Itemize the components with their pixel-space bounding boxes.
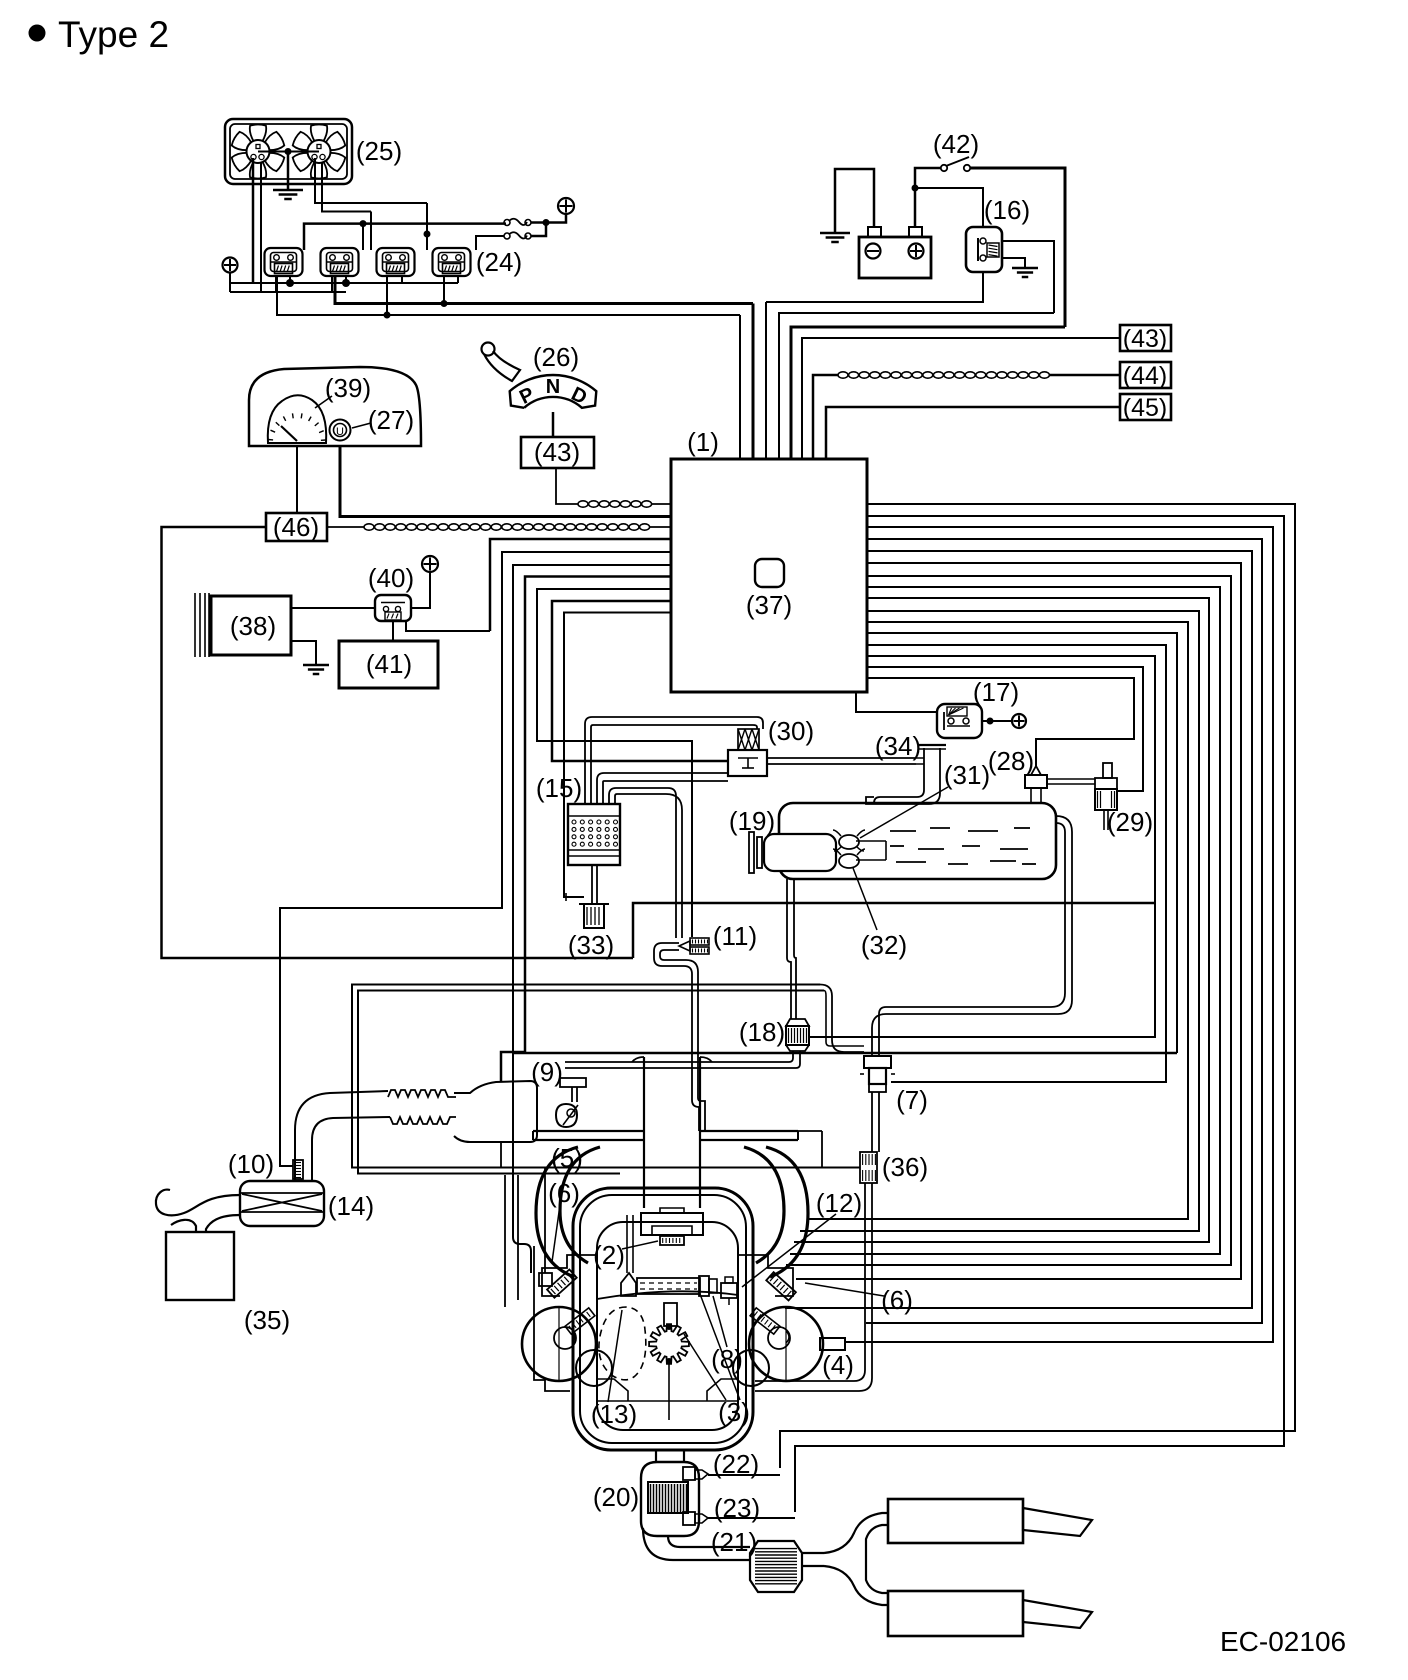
wire engine-right b xyxy=(800,611,1199,1231)
wire (33) stub xyxy=(564,896,584,898)
wire (36) left xyxy=(822,1131,860,1168)
wire engine-right c xyxy=(794,598,1209,1242)
wire 46 to ECU chain xyxy=(327,526,671,528)
injector bus 2 xyxy=(230,291,346,293)
central duct xyxy=(643,1057,645,1208)
svg-text:(30): (30) xyxy=(768,716,814,746)
pipe to cat 21 xyxy=(643,1528,750,1560)
wire fan right pin B xyxy=(322,162,371,212)
wire ECU-left y589 to (11) xyxy=(537,589,692,937)
band extension xyxy=(798,1130,822,1132)
Y inner wedge xyxy=(866,1525,888,1593)
svg-text:(26): (26) xyxy=(533,342,579,372)
sensor (4) xyxy=(820,1338,845,1350)
svg-text:(39): (39) xyxy=(325,373,371,403)
downpipe from engine xyxy=(655,1450,657,1463)
vent pipe (34) xyxy=(923,748,925,790)
pipe 28 to 29 xyxy=(1047,778,1095,780)
wire drop to 6L sensor xyxy=(544,1168,546,1274)
svg-text:(35): (35) xyxy=(244,1305,290,1335)
valve (33) xyxy=(584,904,604,928)
svg-text:(17): (17) xyxy=(973,677,1019,707)
svg-text:(15): (15) xyxy=(536,773,582,803)
belt rod left xyxy=(565,1308,595,1334)
fuel tank xyxy=(779,803,1056,879)
pulley right xyxy=(749,1307,823,1381)
svg-text:(32): (32) xyxy=(861,930,907,960)
speedometer (39) xyxy=(268,395,326,443)
wire ECU top 1 (bus2) xyxy=(739,315,741,459)
wire engine-right a xyxy=(808,622,1188,1219)
O2 sensor (22) xyxy=(683,1467,695,1480)
svg-text:(43): (43) xyxy=(534,437,580,467)
wire ECU bottom to (17) xyxy=(856,692,937,712)
svg-text:N: N xyxy=(546,376,560,398)
fuel injector (24) xyxy=(433,248,471,276)
wire fan left pins down xyxy=(252,158,255,283)
wire ECU-left y576 to throttle(9) xyxy=(501,577,671,1082)
pipe pump drop xyxy=(820,985,864,1053)
svg-text:(38): (38) xyxy=(230,611,276,641)
wire fan hub link xyxy=(258,151,319,153)
wire engine-right h xyxy=(866,539,1262,1323)
wire engine-right e xyxy=(786,576,1231,1265)
air cleaner (14) xyxy=(240,1181,324,1226)
wire 17 to terminal xyxy=(982,720,1012,722)
purge solenoid (30) xyxy=(738,729,759,750)
wire ECU-left y552 to (10) xyxy=(280,552,671,1166)
wire ECU-left y539 to (40) xyxy=(490,539,671,631)
skirt steps xyxy=(597,1379,628,1401)
crank gear xyxy=(649,1324,689,1364)
wire relay to ground xyxy=(1002,258,1025,268)
pipe fuel supply B xyxy=(358,991,824,1174)
wire 40 to ECU line xyxy=(406,621,490,631)
tailpipe lower xyxy=(1023,1600,1092,1628)
wire 40 to 41 xyxy=(392,621,394,641)
svg-text:(40): (40) xyxy=(368,563,414,593)
belt rod right xyxy=(750,1308,780,1334)
wire ECU-left y565 long down xyxy=(513,565,671,1273)
svg-text:(28): (28) xyxy=(988,746,1034,776)
Y lower branch xyxy=(824,1566,888,1605)
muffler upper xyxy=(888,1499,1023,1543)
svg-text:(11): (11) xyxy=(713,921,757,951)
wire ECU-left y601 to (30) xyxy=(552,601,728,761)
battery xyxy=(859,237,931,278)
svg-text:(8): (8) xyxy=(711,1344,743,1374)
wire engine-right g xyxy=(785,551,1252,1308)
engine casing outer xyxy=(573,1188,753,1450)
svg-text:(34): (34) xyxy=(875,731,921,761)
connector box (43) under PND xyxy=(521,437,594,468)
valve (29) xyxy=(1103,763,1112,778)
svg-text:(36): (36) xyxy=(882,1152,928,1182)
wire duct stub xyxy=(500,1142,502,1167)
connector (36) xyxy=(860,1152,877,1183)
wire under tank xyxy=(633,903,1155,958)
wire long y1053 xyxy=(867,633,1177,1053)
piston xyxy=(664,1303,677,1326)
knock sensor (2) xyxy=(660,1236,684,1245)
svg-text:(6): (6) xyxy=(881,1285,913,1315)
ECU (1) xyxy=(671,459,867,692)
corrugated duct xyxy=(388,1090,456,1097)
duct to throttle xyxy=(454,1081,537,1142)
wire (23) xyxy=(708,1517,795,1519)
hose (11) to manifold xyxy=(654,943,699,1131)
connector box (46) xyxy=(266,513,327,541)
wire switch42 right (thick) xyxy=(970,168,1065,327)
wire 27 to ECU (thick) xyxy=(340,446,671,517)
battery ground loop xyxy=(835,169,874,233)
pipe canister-left to solenoid top xyxy=(585,717,763,804)
wire ECU top 4 relay pin xyxy=(779,313,1054,459)
intake runner left xyxy=(536,1147,578,1277)
tailpipe upper xyxy=(1023,1508,1092,1536)
wire ECU top 8 to box45 xyxy=(826,407,1120,459)
wire PND to box43 xyxy=(552,412,555,437)
pipe filter down to (36) xyxy=(871,1092,873,1152)
relay (40) xyxy=(375,595,411,621)
head plate left xyxy=(542,1255,597,1296)
wire (22) xyxy=(708,1474,780,1476)
wire ECU top 3 xyxy=(765,302,767,459)
wire engine-right d xyxy=(790,587,1220,1254)
wire to (28) xyxy=(867,678,1134,766)
svg-text:(3): (3) xyxy=(718,1397,750,1427)
wire to (18) xyxy=(810,656,1155,1037)
front pipe + cat (20) xyxy=(641,1462,699,1536)
pipe (36) down to engine xyxy=(755,1183,865,1381)
radiator fan assembly (25) xyxy=(225,119,352,184)
injector signal bus to ECU (thick) xyxy=(335,276,753,304)
intake snorkel to (35) xyxy=(156,1190,240,1216)
svg-text:(41): (41) xyxy=(366,649,412,679)
wire switch42 to relay contact xyxy=(915,188,983,227)
wire to (4) xyxy=(845,527,1273,1342)
box (41) xyxy=(339,641,438,688)
pipe canister-right to (11) xyxy=(609,788,676,938)
fuel rail xyxy=(637,1278,700,1294)
wire engine-right f xyxy=(796,563,1241,1279)
ground xyxy=(834,232,836,235)
fuel filter (7) xyxy=(864,1056,891,1068)
svg-text:(1): (1) xyxy=(687,427,719,457)
MAP connector (11) xyxy=(690,938,709,945)
svg-text:(33): (33) xyxy=(568,930,614,960)
pipe tank-left to (18) xyxy=(787,879,791,1019)
engine left pipes behind pulley xyxy=(504,1175,506,1307)
wire switch to terminal xyxy=(531,214,566,223)
svg-text:(42): (42) xyxy=(933,129,979,159)
wire lower switch left xyxy=(476,236,504,250)
wire switch42 left to battery xyxy=(915,168,941,226)
wire fan right pin A xyxy=(315,158,427,203)
fuel injector (24) xyxy=(321,248,359,276)
intake runner right xyxy=(766,1147,808,1277)
svg-text:(24): (24) xyxy=(476,247,522,277)
svg-text:(2): (2) xyxy=(593,1240,625,1270)
svg-text:(14): (14) xyxy=(328,1191,374,1221)
crankcase xyxy=(597,1222,738,1430)
wire to (29) xyxy=(867,667,1143,791)
wire to (22) xyxy=(780,504,1295,1468)
fuel injector (24) xyxy=(265,248,303,276)
svg-text:(31): (31) xyxy=(944,760,990,790)
throttle butterfly xyxy=(556,1104,577,1127)
wire ECU top 7 to box44 xyxy=(813,375,1120,459)
pipe solenoid to (34) xyxy=(767,757,916,759)
sub-module (37) xyxy=(755,559,784,587)
wire relay pin to right xyxy=(1002,241,1054,313)
wire relay coil down-left xyxy=(766,272,983,302)
pulley left xyxy=(522,1307,596,1381)
svg-text:(4): (4) xyxy=(822,1350,854,1380)
pressure regulator xyxy=(621,1273,636,1296)
selector lever xyxy=(482,343,495,356)
damper (32) xyxy=(839,854,859,868)
wire 46 left long loop xyxy=(162,527,634,958)
svg-text:U: U xyxy=(336,426,344,438)
injector signal bus 2 to ECU xyxy=(277,276,740,315)
muffler lower xyxy=(888,1591,1023,1636)
bullet xyxy=(29,25,46,42)
connector box (43) right xyxy=(1120,325,1171,351)
svg-text:(44): (44) xyxy=(1123,362,1167,390)
plenum chamber center xyxy=(641,1213,703,1235)
head plate right xyxy=(738,1255,793,1296)
svg-text:EC-02106: EC-02106 xyxy=(1220,1626,1346,1657)
power terminal above switch xyxy=(558,198,574,214)
resonator (35) xyxy=(166,1232,234,1300)
ground below fan xyxy=(287,152,290,191)
svg-text:(18): (18) xyxy=(739,1017,785,1047)
telltale (27) xyxy=(330,420,351,441)
power terminal xyxy=(422,556,438,572)
svg-text:(10): (10) xyxy=(228,1149,274,1179)
engine belt cover left xyxy=(534,1246,570,1391)
pipe (34) down into tank xyxy=(874,790,924,803)
wire to (23) xyxy=(795,516,1284,1512)
svg-text:(29): (29) xyxy=(1107,807,1153,837)
svg-text:(9): (9) xyxy=(531,1057,563,1087)
fuel injector (24) xyxy=(377,248,415,276)
pipe 21 to Y xyxy=(802,1552,824,1554)
cylinder liner dashed xyxy=(599,1307,646,1380)
wire ECU top 5 switch42 thick xyxy=(791,327,1065,459)
svg-text:(13): (13) xyxy=(591,1399,637,1429)
ground from 38 xyxy=(291,641,316,665)
instrument cluster housing xyxy=(249,367,421,446)
svg-text:(7): (7) xyxy=(896,1085,928,1115)
wire speedo to 46 xyxy=(296,446,298,513)
pipe (18) down to manifold xyxy=(565,1051,793,1062)
sensor body 6L xyxy=(547,1269,577,1297)
Y upper branch xyxy=(824,1513,888,1553)
wire branch y1053 long (thick) xyxy=(513,1052,1177,1055)
svg-text:(45): (45) xyxy=(1123,394,1167,422)
canister (15) xyxy=(568,804,620,865)
wire upper bus to switch xyxy=(304,224,506,250)
wires 38-40-terminal xyxy=(291,607,375,609)
svg-text:(20): (20) xyxy=(593,1482,639,1512)
solenoid (18) xyxy=(786,1019,809,1026)
svg-text:(12): (12) xyxy=(816,1188,862,1218)
pipe tank to filter (7) xyxy=(872,816,1072,1056)
pipe canister-mid to solenoid bottom xyxy=(597,773,728,804)
svg-text:(6): (6) xyxy=(548,1178,580,1208)
intake duct elbow from 14 xyxy=(295,1091,388,1181)
wire to (7) xyxy=(867,645,1166,1082)
damper (31) xyxy=(839,835,859,849)
PND indicator (26) xyxy=(510,375,597,408)
wire box43 to ECU with chain xyxy=(556,468,671,504)
wire ECU-left y612 to (33) xyxy=(564,613,671,898)
svg-text:Type 2: Type 2 xyxy=(58,14,169,55)
svg-text:(16): (16) xyxy=(984,195,1030,225)
O2 sensor (23) xyxy=(683,1512,695,1525)
svg-text:(43): (43) xyxy=(1123,325,1167,353)
power terminal left of injectors xyxy=(223,258,238,273)
wire (18) to right nest xyxy=(810,1036,812,1038)
svg-text:(37): (37) xyxy=(746,590,792,620)
svg-text:(25): (25) xyxy=(356,136,402,166)
pipe fuel supply A xyxy=(352,985,860,1168)
switch pair near injectors xyxy=(504,220,510,226)
connector box (45) right xyxy=(1120,394,1171,420)
svg-text:(27): (27) xyxy=(368,405,414,435)
condenser (38) xyxy=(211,596,291,655)
pipe pump outlet xyxy=(856,840,886,842)
wire ECU top 6 to box43 xyxy=(802,338,1120,459)
crank parting line xyxy=(597,1291,738,1299)
connector box (44) right xyxy=(1120,362,1171,388)
relay (17) xyxy=(937,704,982,738)
fuel level dashes xyxy=(890,830,916,832)
pipe canister to (33) xyxy=(591,865,593,904)
wire ECU top 2 (bus1 thick) xyxy=(752,304,755,460)
svg-text:(46): (46) xyxy=(273,512,319,542)
injector ground bus 1 xyxy=(229,273,231,293)
